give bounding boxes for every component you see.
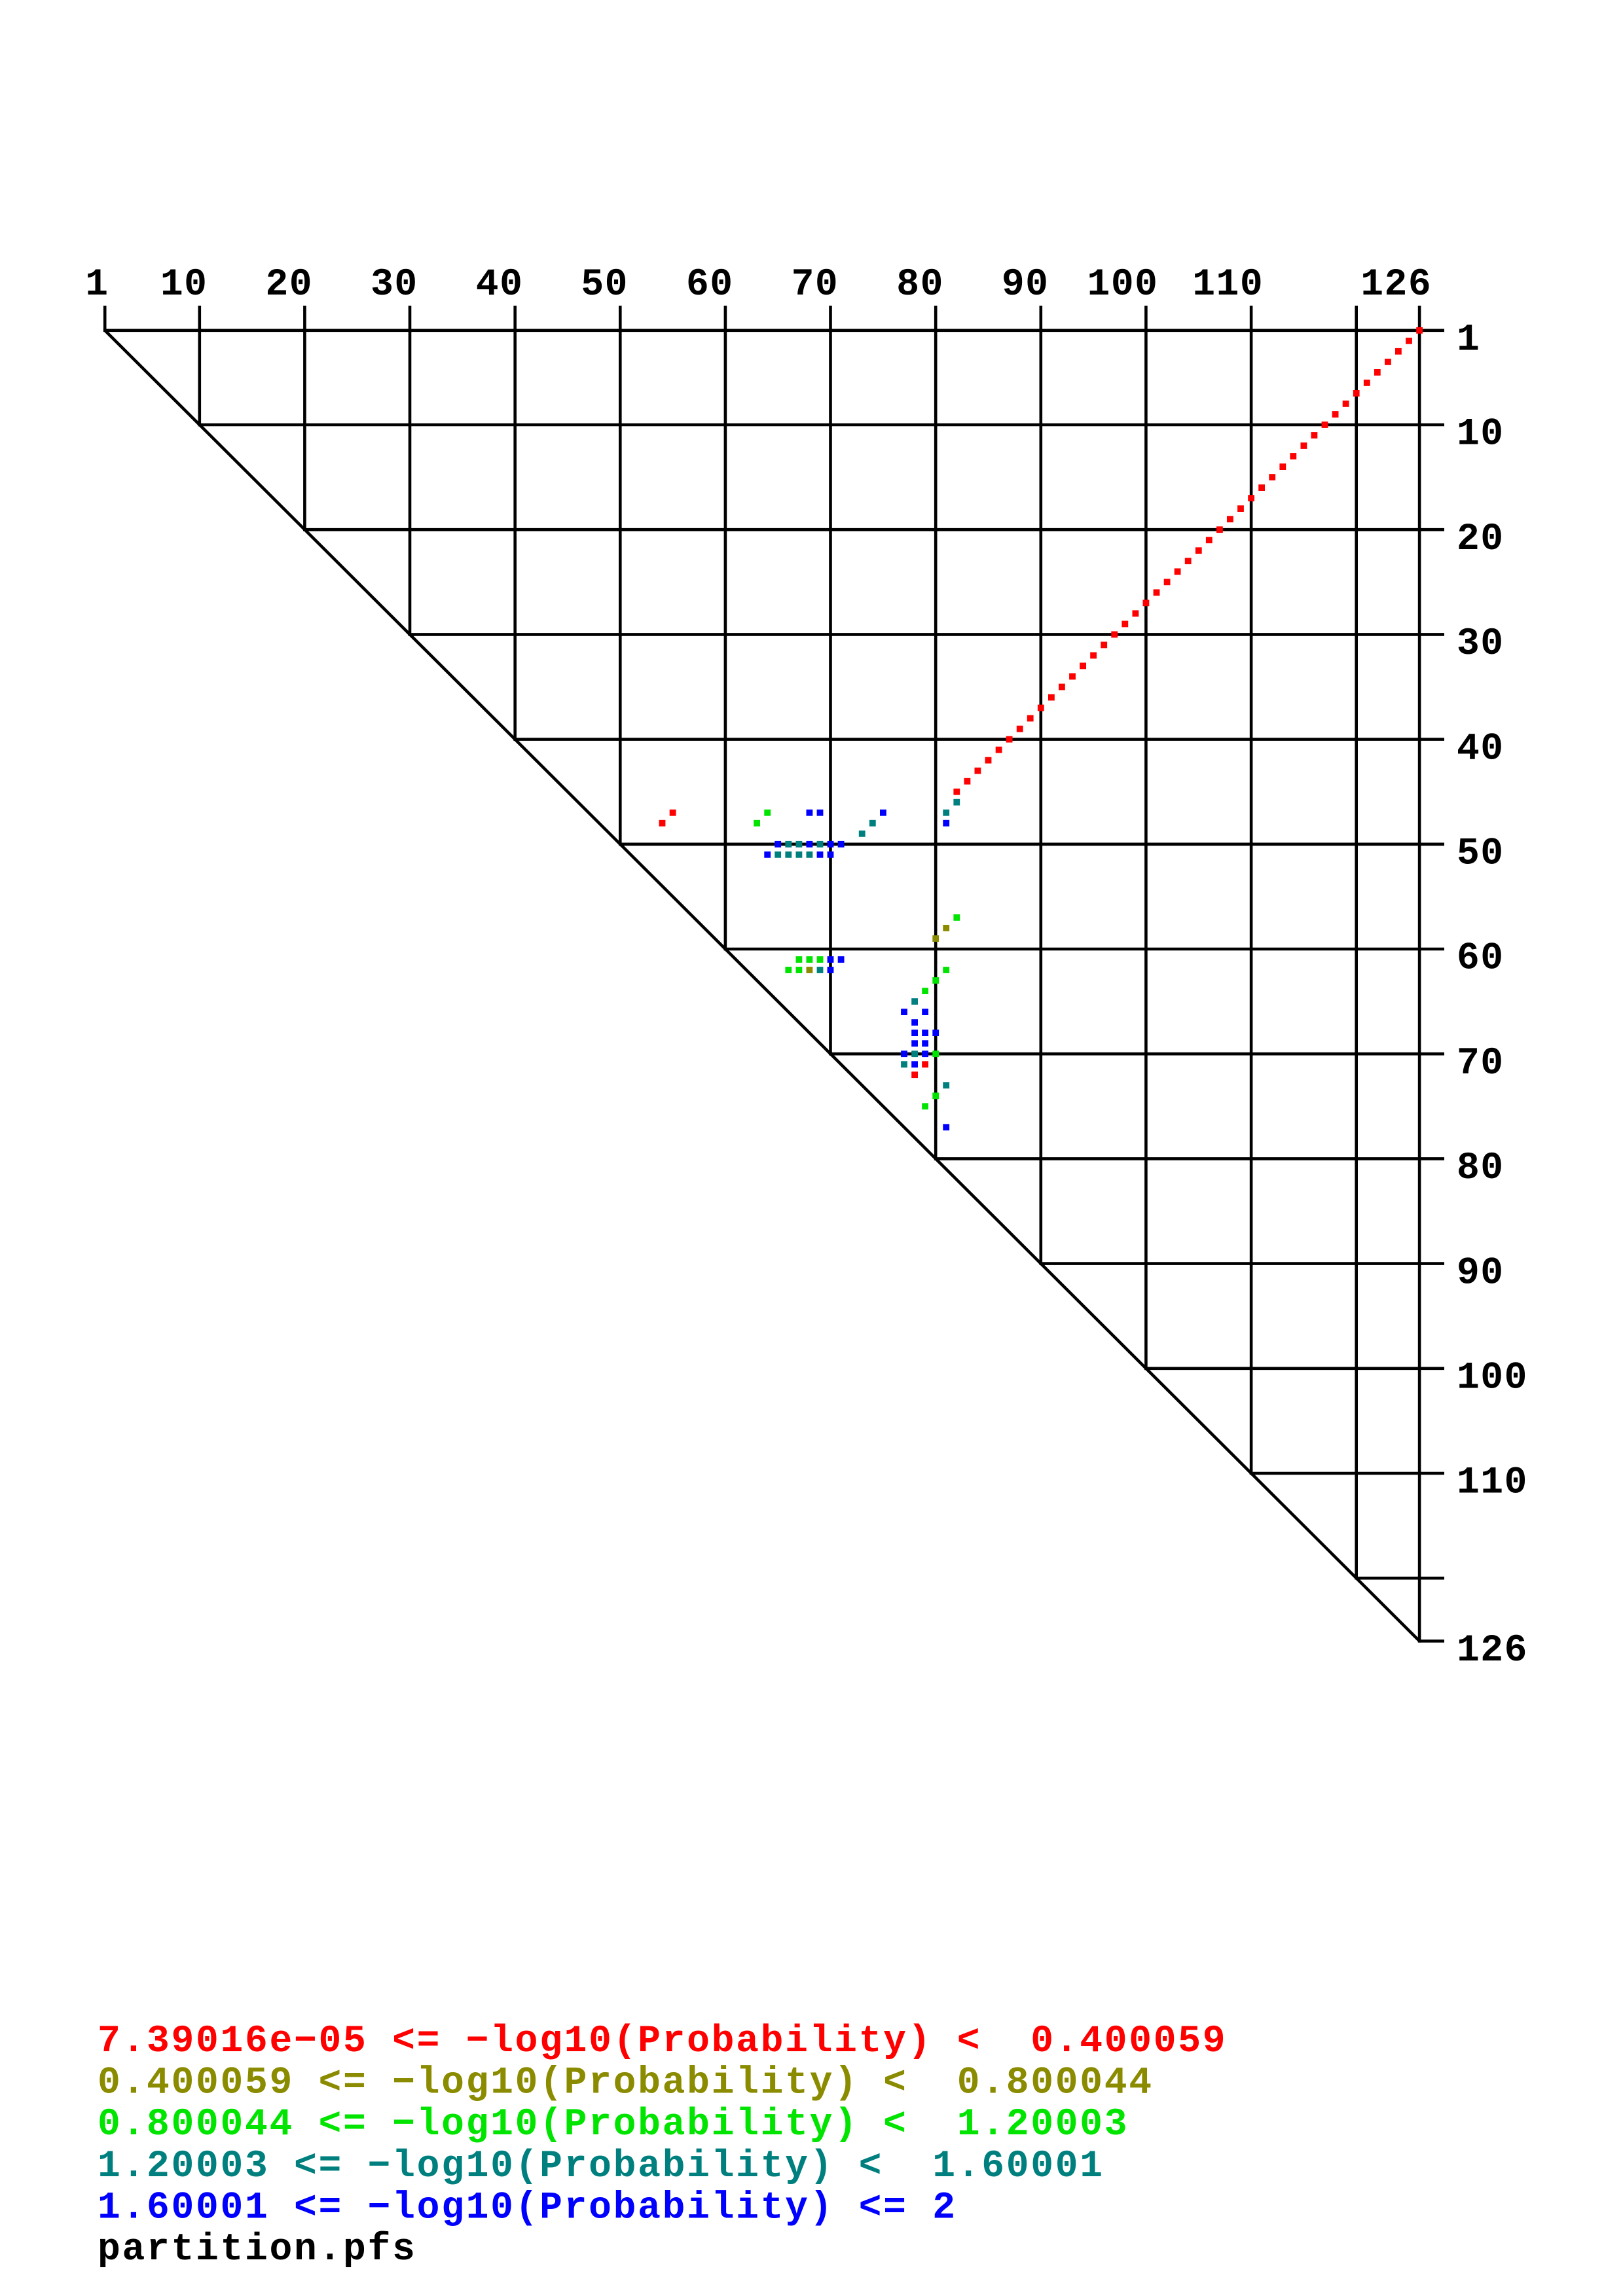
svg-text:20: 20: [265, 264, 313, 306]
svg-text:126: 126: [1360, 264, 1432, 306]
horizontal gridline row 40: [513, 738, 1444, 741]
svg-text:80: 80: [1457, 1147, 1504, 1190]
svg-text:7.39016e−05 <= −log10(Probabil: 7.39016e−05 <= −log10(Probability) < 0.4…: [98, 2020, 1227, 2063]
dot pair (81,48): [943, 820, 949, 827]
dot helix pair (110,17): [1248, 495, 1254, 501]
dot pair (68,51): [807, 852, 813, 858]
svg-text:100: 100: [1457, 1357, 1528, 1400]
dot pair (69,62): [817, 967, 824, 973]
dot pair (81,77): [943, 1124, 949, 1130]
dot pair (79,66): [922, 1009, 928, 1015]
y axis labels (3' nucleotide index): [1457, 319, 1528, 1673]
dot pair (65,50): [775, 841, 781, 848]
dot pair (71,61): [838, 956, 845, 963]
dot pair (78,71): [911, 1061, 918, 1067]
svg-text:60: 60: [1457, 938, 1504, 980]
dot helix pair (111,16): [1258, 484, 1265, 491]
dot pair (81,73): [943, 1082, 949, 1088]
dot pair (68,62): [807, 967, 813, 973]
dot pair (69,50): [817, 841, 824, 848]
tick for column 1: [103, 306, 107, 331]
dot pair (81,62): [943, 967, 949, 973]
dot helix pair (94,33): [1080, 663, 1086, 670]
dot helix pair (102,25): [1164, 579, 1171, 585]
dot helix pair (96,31): [1101, 642, 1107, 649]
dot pair (68,47): [807, 810, 813, 816]
dot helix pair (95,32): [1090, 653, 1097, 659]
dot pair (66,62): [785, 967, 792, 973]
dot helix pair (90,37): [1038, 705, 1044, 711]
dot pair (78,69): [911, 1040, 918, 1047]
dot pair (70,62): [828, 967, 834, 973]
tick for row 126: [1419, 1640, 1444, 1643]
right axis edge (column 126 line with top tick): [1418, 306, 1421, 1643]
dot helix pair (97,30): [1111, 632, 1118, 638]
dot helix pair (93,34): [1069, 673, 1076, 680]
dot pair (80,63): [932, 977, 939, 984]
dot pair (82,46): [953, 799, 960, 806]
dot pair (79,70): [922, 1050, 928, 1057]
svg-text:1: 1: [85, 264, 109, 306]
dot helix pair (107,20): [1216, 526, 1223, 533]
dot pair (70,51): [828, 852, 834, 858]
dot pair (66,50): [785, 841, 792, 848]
dot helix pair (88,39): [1017, 726, 1023, 732]
dot pair (79,75): [922, 1103, 928, 1109]
dot helix pair (105,22): [1195, 547, 1202, 554]
svg-text:90: 90: [1002, 264, 1049, 306]
dot helix pair (115,12): [1301, 442, 1307, 449]
main diagonal i=j: [105, 331, 1419, 1641]
dot helix pair (87,40): [1006, 736, 1013, 743]
dot pair (74,48): [869, 820, 876, 827]
horizontal gridline row 50: [619, 843, 1444, 846]
dot helix pair (120,7): [1353, 390, 1360, 397]
dot pair (65,51): [775, 852, 781, 858]
vertical gridline column 50: [619, 306, 622, 846]
dot pair (78,72): [911, 1071, 918, 1078]
svg-text:110: 110: [1192, 264, 1264, 306]
dot pair (79,64): [922, 988, 928, 994]
dot pair (55,47): [670, 810, 676, 816]
svg-text:0.400059 <= −log10(Probability: 0.400059 <= −log10(Probability) < 0.8000…: [98, 2062, 1154, 2105]
vertical gridline column 100: [1144, 306, 1148, 1370]
dot pair (79,68): [922, 1030, 928, 1036]
dot pair (78,70): [911, 1050, 918, 1057]
vertical gridline column 40: [513, 306, 517, 741]
dot pair (77,66): [901, 1009, 907, 1015]
dot pair (78,67): [911, 1019, 918, 1026]
dot helix pair (124,3): [1395, 348, 1402, 355]
dot pair (67,61): [796, 956, 803, 963]
dot helix pair (103,24): [1175, 568, 1181, 575]
dot pair (67,62): [796, 967, 803, 973]
dot pair (66,51): [785, 852, 792, 858]
dot pair (71,50): [838, 841, 845, 848]
dot pair (70,61): [828, 956, 834, 963]
svg-text:126: 126: [1457, 1630, 1528, 1672]
dot helix pair (84,43): [975, 768, 981, 774]
dot helix pair (112,15): [1269, 474, 1275, 480]
vertical gridline column 70: [829, 306, 832, 1056]
dot helix pair (123,4): [1385, 359, 1391, 365]
svg-text:70: 70: [1457, 1043, 1504, 1085]
vertical gridline column 90: [1040, 306, 1043, 1265]
horizontal gridline row 80: [934, 1157, 1444, 1160]
svg-text:40: 40: [476, 264, 524, 306]
svg-text:50: 50: [1457, 833, 1504, 876]
svg-text:0.800044 <= −log10(Probability: 0.800044 <= −log10(Probability) < 1.2000…: [98, 2104, 1129, 2146]
dot helix pair (117,10): [1322, 422, 1328, 428]
svg-text:70: 70: [792, 264, 839, 306]
svg-text:50: 50: [581, 264, 629, 306]
svg-text:1.60001 <= −log10(Probability): 1.60001 <= −log10(Probability) <= 2: [98, 2187, 957, 2229]
svg-text:10: 10: [1457, 414, 1504, 456]
dot pair (81,58): [943, 925, 949, 931]
dot helix pair (108,19): [1227, 516, 1233, 522]
horizontal gridline row 70: [829, 1052, 1444, 1056]
dot pair (73,49): [859, 831, 866, 837]
dot helix pair (83,44): [964, 778, 971, 785]
svg-text:60: 60: [686, 264, 734, 306]
svg-text:30: 30: [1457, 623, 1504, 666]
dot pair (78,68): [911, 1030, 918, 1036]
dot helix pair (98,29): [1122, 621, 1128, 628]
horizontal gridline row 60: [724, 948, 1444, 951]
svg-text:1.20003 <= −log10(Probability): 1.20003 <= −log10(Probability) < 1.60001: [98, 2145, 1104, 2188]
dot pair (75,47): [880, 810, 886, 816]
dot pair (70,50): [828, 841, 834, 848]
vertical gridline column 20: [303, 306, 306, 531]
dot helix pair (116,11): [1311, 432, 1318, 439]
x axis labels (5' nucleotide index): [85, 264, 1432, 306]
svg-text:10: 10: [160, 264, 208, 306]
svg-text:110: 110: [1457, 1462, 1528, 1505]
svg-text:100: 100: [1087, 264, 1159, 306]
dot helix pair (101,26): [1154, 589, 1160, 596]
vertical gridline column 60: [724, 306, 727, 950]
horizontal gridline row 120: [1355, 1577, 1444, 1580]
dot helix pair (109,18): [1237, 505, 1244, 512]
dot helix pair (91,36): [1048, 694, 1055, 701]
dot helix pair (118,9): [1332, 411, 1339, 418]
dot helix pair (86,41): [996, 747, 1002, 753]
dot pair (80,59): [932, 935, 939, 942]
dot pair (82,57): [953, 914, 960, 921]
dot helix pair (106,21): [1206, 537, 1213, 543]
dot helix pair (119,8): [1343, 401, 1349, 407]
dot pair (80,68): [932, 1030, 939, 1036]
dot pair (69,61): [817, 956, 824, 963]
dot pair (80,70): [932, 1050, 939, 1057]
horizontal gridline row 10: [198, 423, 1445, 427]
dot pair (78,65): [911, 998, 918, 1005]
dot pair (67,51): [796, 852, 803, 858]
dot pair (64,47): [764, 810, 771, 816]
vertical gridline column 120: [1355, 306, 1358, 1580]
svg-text:40: 40: [1457, 728, 1504, 770]
svg-text:90: 90: [1457, 1252, 1504, 1295]
vertical gridline column 30: [409, 306, 412, 636]
vertical gridline column 10: [198, 306, 201, 426]
horizontal gridline row 20: [303, 528, 1444, 531]
dot pair (79,69): [922, 1040, 928, 1047]
dot pair (69,51): [817, 852, 824, 858]
dot helix pair (100,27): [1143, 600, 1150, 606]
vertical gridline column 110: [1250, 306, 1253, 1475]
dot helix pair (122,5): [1374, 369, 1381, 376]
dot helix pair (82,45): [953, 789, 960, 795]
dot pair (63,48): [754, 820, 760, 827]
dot helix pair (126,1): [1416, 327, 1423, 334]
horizontal gridline row 30: [409, 633, 1444, 636]
dot pair (68,61): [807, 956, 813, 963]
svg-text:80: 80: [896, 264, 944, 306]
dot helix pair (92,35): [1059, 684, 1065, 691]
horizontal gridline row 110: [1250, 1472, 1444, 1475]
dot helix pair (113,14): [1279, 463, 1286, 470]
dot pair (69,47): [817, 810, 824, 816]
dot pair (68,50): [807, 841, 813, 848]
horizontal gridline row 100: [1144, 1367, 1444, 1371]
dot pair (67,50): [796, 841, 803, 848]
svg-text:1: 1: [1457, 319, 1480, 362]
dot helix pair (121,6): [1364, 380, 1370, 386]
dot helix pair (85,42): [985, 757, 992, 764]
dot pair (77,71): [901, 1061, 907, 1067]
dot helix pair (104,23): [1185, 558, 1192, 564]
dot pair (77,70): [901, 1050, 907, 1057]
dot helix pair (114,13): [1290, 453, 1296, 459]
top axis edge (row 1 line with right tick): [103, 329, 1444, 332]
dot helix pair (89,38): [1027, 715, 1034, 722]
dot helix pair (99,28): [1133, 610, 1139, 617]
dot pair (80,74): [932, 1092, 939, 1099]
svg-text:30: 30: [371, 264, 418, 306]
svg-text:partition.pfs: partition.pfs: [98, 2229, 417, 2271]
dot pair (64,51): [764, 852, 771, 858]
dot helix pair (125,2): [1406, 338, 1412, 344]
horizontal gridline row 90: [1040, 1262, 1445, 1265]
dot pair (81,47): [943, 810, 949, 816]
dot pair (54,48): [659, 820, 666, 827]
vertical gridline column 80: [934, 306, 938, 1160]
svg-text:20: 20: [1457, 518, 1504, 561]
dot pair (79,71): [922, 1061, 928, 1067]
